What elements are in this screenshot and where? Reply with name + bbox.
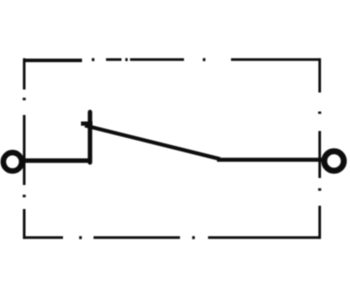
switch blade (diagonal moving contact) [85,126,220,160]
enclosure outline (dash-dot border) [23,58,320,239]
top side: dots [92,58,206,61]
bottom side: dashes [23,236,320,239]
right side: dashes [318,58,321,239]
bottom side: dots [79,236,195,239]
left side: dashes [23,58,26,239]
switch contact tick (short horizontal bar at top of riser) [81,121,93,125]
terminal ring left [3,153,21,171]
switch fixed contact: vertical riser [88,112,92,163]
wire: right segment from blade to right terminal [217,158,323,162]
wire: left segment from left terminal to switch [21,158,92,163]
top side: dashes [23,59,82,63]
right side: dots [318,112,321,191]
left side: dots [23,98,26,197]
terminal ring right [324,151,344,171]
